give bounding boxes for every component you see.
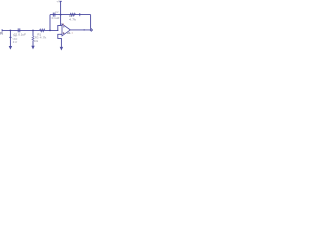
node output pin dot	[84, 29, 85, 30]
wire feedback horizontal B	[50, 14, 91, 16]
wire bias jog to inverting input	[58, 25, 61, 30]
wire bias vertical to power	[60, 1, 62, 25]
op-amp U1 plus sign	[63, 33, 64, 34]
svg-text:4.7k: 4.7k	[69, 17, 77, 21]
wire source branch vertical	[9, 30, 11, 46]
svg-text:U1: U1	[67, 31, 71, 35]
op-amp U1 minus sign	[63, 26, 64, 28]
ground arrow G2	[31, 46, 34, 50]
node junction bias on feedback	[60, 14, 61, 15]
resistor R2 zigzag	[70, 13, 75, 16]
op-amp U1 non-inverting input pin	[59, 33, 62, 35]
op-amp U1 triangle	[62, 24, 70, 36]
wire main horizontal A	[2, 29, 58, 31]
wire R3 branch vertical	[32, 30, 34, 46]
svg-text:6: 6	[72, 31, 74, 35]
pin tick on feedback wire	[79, 13, 81, 16]
svg-text:1V: 1V	[13, 40, 18, 44]
resistor R3 vertical zigzag	[32, 36, 34, 40]
svg-text:4.7k: 4.7k	[40, 35, 47, 39]
resistor R1 zigzag	[40, 29, 45, 32]
source V1 symbol	[9, 36, 11, 38]
capacitor C2 plate 1	[52, 13, 54, 17]
node junction at R3 branch	[32, 30, 33, 31]
capacitor C2 plate 2	[54, 13, 56, 17]
ground arrow G3	[60, 47, 63, 51]
node junction at inverting path	[57, 30, 58, 31]
wire non-inverting input to ground	[58, 34, 62, 47]
svg-text:VSIN: VSIN	[13, 37, 18, 41]
output terminal	[90, 29, 92, 32]
op-amp U1 inverting input pin	[59, 24, 62, 26]
svg-text:C2: C2	[55, 10, 59, 14]
wire output	[70, 29, 90, 31]
svg-text:C1 0.1uF: C1 0.1uF	[14, 33, 27, 37]
svg-text:10k: 10k	[34, 39, 39, 43]
capacitor C1 plate 2	[19, 28, 21, 32]
wire feedback left vertical	[49, 15, 51, 31]
svg-text:+V: +V	[56, 0, 60, 4]
capacitor C1 plate 1	[17, 28, 19, 32]
svg-text:0.1uF: 0.1uF	[52, 16, 60, 20]
input terminal bar	[1, 29, 3, 31]
svg-text:IN: IN	[0, 31, 4, 35]
ground arrow G1	[9, 46, 12, 50]
node junction feedback left	[49, 30, 50, 31]
power terminal bar	[60, 0, 62, 2]
node at source branch	[10, 30, 11, 31]
wire feedback right vertical	[90, 15, 92, 29]
